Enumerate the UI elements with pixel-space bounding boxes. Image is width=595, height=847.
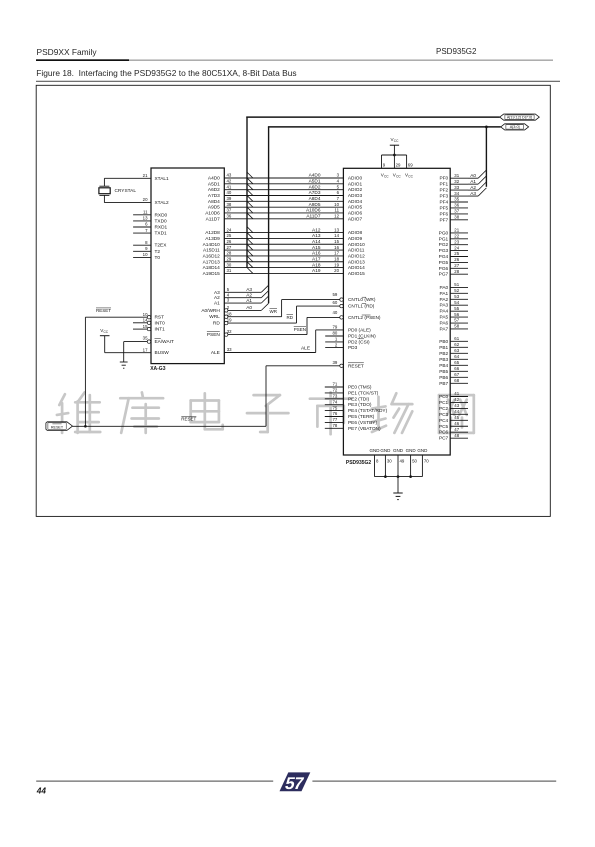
svg-text:12: 12	[334, 214, 339, 219]
svg-text:19: 19	[227, 318, 232, 323]
svg-text:15: 15	[334, 239, 339, 244]
svg-text:A6D2: A6D2	[208, 187, 220, 193]
svg-text:43: 43	[454, 403, 459, 408]
svg-text:PD3: PD3	[348, 345, 358, 351]
svg-text:ADIO13: ADIO13	[348, 259, 365, 265]
svg-text:PB4: PB4	[439, 363, 448, 369]
svg-text:PA4: PA4	[440, 309, 449, 315]
svg-text:A9D5: A9D5	[208, 205, 220, 211]
svg-text:A1: A1	[470, 179, 476, 185]
svg-text:10: 10	[334, 202, 339, 207]
svg-text:61: 61	[454, 336, 459, 341]
svg-text:38: 38	[454, 215, 459, 220]
svg-text:GND: GND	[393, 448, 404, 453]
svg-text:40: 40	[227, 190, 232, 195]
svg-text:INT0: INT0	[155, 320, 166, 326]
svg-text:PE5 (TERR): PE5 (TERR)	[348, 414, 375, 420]
svg-text:PSD9XX Family: PSD9XX Family	[37, 47, 98, 57]
svg-text:54: 54	[454, 300, 459, 305]
svg-text:T2: T2	[155, 249, 161, 255]
svg-text:33: 33	[227, 347, 232, 352]
svg-text:ALE: ALE	[301, 346, 310, 352]
svg-text:TXD1: TXD1	[155, 231, 168, 237]
svg-text:A18: A18	[312, 262, 321, 268]
svg-text:PF2: PF2	[439, 188, 448, 194]
svg-text:A11D7: A11D7	[206, 216, 221, 222]
svg-text:A8D4: A8D4	[208, 199, 220, 205]
svg-text:PC6: PC6	[439, 430, 449, 436]
svg-text:65: 65	[454, 360, 459, 365]
svg-text:PA5: PA5	[440, 315, 449, 321]
svg-text:ADIO2: ADIO2	[348, 187, 363, 193]
svg-text:17: 17	[334, 251, 339, 256]
svg-text:ADIO3: ADIO3	[348, 193, 363, 199]
svg-text:INT1: INT1	[155, 327, 166, 333]
svg-text:PC3: PC3	[439, 412, 449, 418]
svg-text:ADIO14: ADIO14	[348, 265, 365, 271]
svg-text:A19D15: A19D15	[203, 271, 221, 277]
svg-text:GND: GND	[380, 448, 391, 453]
svg-text:XA-G3: XA-G3	[150, 366, 166, 372]
svg-text:75: 75	[332, 405, 337, 410]
svg-text:ADIO11: ADIO11	[348, 248, 365, 254]
svg-text:50: 50	[412, 459, 417, 464]
svg-text:A7D3: A7D3	[208, 193, 220, 199]
svg-text:32: 32	[454, 179, 459, 184]
svg-text:72: 72	[332, 388, 337, 393]
svg-text:PC4: PC4	[439, 418, 449, 424]
svg-text:A9D5: A9D5	[309, 202, 321, 208]
svg-text:39: 39	[332, 360, 337, 365]
svg-text:78: 78	[332, 423, 337, 428]
svg-text:A15D11: A15D11	[203, 248, 220, 254]
svg-text:RST: RST	[155, 315, 165, 321]
svg-text:14: 14	[143, 318, 148, 323]
svg-text:69: 69	[408, 162, 413, 167]
svg-text:23: 23	[454, 239, 459, 244]
svg-text:PE0 (TMS): PE0 (TMS)	[348, 385, 372, 391]
svg-text:ADIO8: ADIO8	[348, 230, 363, 236]
svg-text:13: 13	[334, 227, 339, 232]
svg-text:PC0: PC0	[439, 394, 449, 400]
svg-text:EA/WAIT: EA/WAIT	[155, 339, 174, 345]
svg-text:27: 27	[454, 263, 459, 268]
svg-text:ADIO15: ADIO15	[348, 271, 365, 277]
svg-text:27: 27	[227, 245, 232, 250]
svg-text:76: 76	[332, 411, 337, 416]
svg-text:13: 13	[143, 216, 148, 221]
svg-text:PG7: PG7	[439, 272, 449, 278]
svg-text:80: 80	[332, 331, 337, 336]
svg-text:PF0: PF0	[439, 176, 448, 182]
svg-text:GND: GND	[370, 448, 381, 453]
svg-text:PE4 (TSTAT/RDY): PE4 (TSTAT/RDY)	[348, 408, 388, 414]
svg-text:PSD935G2: PSD935G2	[436, 47, 477, 56]
svg-text:ADIO4: ADIO4	[348, 199, 363, 205]
svg-text:41: 41	[227, 184, 232, 189]
svg-text:48: 48	[454, 433, 459, 438]
svg-text:79: 79	[332, 325, 337, 330]
svg-text:PA1: PA1	[440, 291, 449, 297]
svg-text:PB7: PB7	[439, 381, 448, 387]
svg-text:22: 22	[454, 234, 459, 239]
svg-text:44: 44	[36, 786, 47, 796]
svg-text:PA7: PA7	[440, 326, 449, 332]
svg-text:PF6: PF6	[439, 211, 448, 217]
svg-text:33: 33	[454, 185, 459, 190]
svg-text:A15: A15	[312, 245, 321, 251]
svg-text:15: 15	[143, 324, 148, 329]
svg-text:Figure 18. Interfacing the PS: Figure 18. Interfacing the PSD935G2 to t…	[36, 68, 296, 78]
svg-text:A3: A3	[214, 290, 220, 296]
svg-text:A12: A12	[312, 227, 321, 233]
svg-text:ADIO9: ADIO9	[348, 236, 363, 242]
svg-text:11: 11	[334, 208, 339, 213]
svg-text:10: 10	[143, 312, 148, 317]
svg-text:RXD0: RXD0	[155, 212, 168, 218]
svg-text:PA3: PA3	[440, 303, 449, 309]
svg-text:19: 19	[334, 262, 339, 267]
svg-text:21: 21	[143, 173, 148, 178]
svg-text:A0: A0	[470, 173, 476, 179]
svg-text:PB3: PB3	[439, 357, 448, 363]
svg-text:PE7 (VBATON): PE7 (VBATON)	[348, 426, 381, 432]
svg-text:32: 32	[227, 329, 232, 334]
svg-text:A13: A13	[312, 233, 321, 239]
svg-text:PF7: PF7	[439, 217, 448, 223]
svg-text:14: 14	[334, 233, 339, 238]
svg-text:PC1: PC1	[439, 400, 449, 406]
svg-text:RESET: RESET	[348, 363, 364, 369]
svg-text:26: 26	[227, 239, 232, 244]
svg-text:40: 40	[332, 310, 337, 315]
svg-text:RD: RD	[213, 321, 220, 327]
svg-text:73: 73	[332, 394, 337, 399]
svg-text:59: 59	[332, 292, 337, 297]
svg-text:PF3: PF3	[439, 194, 448, 200]
svg-text:63: 63	[454, 348, 459, 353]
svg-text:CC: CC	[408, 174, 413, 178]
svg-text:17: 17	[143, 347, 148, 352]
svg-text:CNTL2 (PSEN): CNTL2 (PSEN)	[348, 315, 381, 321]
svg-text:28: 28	[227, 251, 232, 256]
svg-text:ADIO1: ADIO1	[348, 181, 363, 187]
svg-text:RXD1: RXD1	[155, 225, 168, 231]
svg-text:49: 49	[400, 459, 405, 464]
svg-text:10: 10	[143, 252, 148, 257]
svg-text:PG2: PG2	[439, 242, 449, 248]
svg-text:PG1: PG1	[439, 236, 449, 242]
svg-text:45: 45	[454, 415, 459, 420]
svg-text:PC7: PC7	[439, 436, 449, 442]
svg-text:74: 74	[332, 399, 337, 404]
svg-text:24: 24	[227, 227, 232, 232]
svg-text:XTAL2: XTAL2	[155, 200, 170, 206]
svg-text:PG0: PG0	[439, 230, 449, 236]
svg-text:RESET: RESET	[96, 308, 111, 313]
svg-text:PE3 (TDO): PE3 (TDO)	[348, 402, 372, 408]
svg-text:67: 67	[454, 372, 459, 377]
svg-text:ADIO7: ADIO7	[348, 216, 363, 222]
svg-text:A11D7: A11D7	[306, 214, 321, 220]
svg-text:A0/WRH: A0/WRH	[201, 308, 220, 314]
svg-text:PD2 (CSI): PD2 (CSI)	[348, 339, 370, 345]
svg-text:WR: WR	[270, 309, 278, 314]
svg-text:58: 58	[454, 324, 459, 329]
svg-text:TXD0: TXD0	[155, 218, 168, 224]
svg-text:24: 24	[454, 245, 459, 250]
svg-text:25: 25	[227, 233, 232, 238]
svg-text:36: 36	[454, 203, 459, 208]
svg-text:20: 20	[334, 268, 339, 273]
svg-text:60: 60	[332, 300, 337, 305]
svg-text:PA2: PA2	[440, 297, 449, 303]
svg-text:A5D1: A5D1	[309, 179, 321, 185]
svg-text:PF5: PF5	[439, 205, 448, 211]
svg-text:46: 46	[454, 421, 459, 426]
svg-text:WRL: WRL	[209, 314, 220, 320]
svg-text:A2: A2	[214, 295, 220, 301]
svg-text:A3: A3	[246, 287, 252, 293]
svg-text:T2EX: T2EX	[155, 243, 168, 249]
svg-text:XTAL1: XTAL1	[155, 176, 170, 182]
svg-text:CC: CC	[384, 174, 389, 178]
svg-text:A7D3: A7D3	[309, 190, 321, 196]
svg-text:PD0 (ALE): PD0 (ALE)	[348, 327, 371, 333]
svg-text:18: 18	[227, 311, 232, 316]
svg-text:57: 57	[454, 318, 459, 323]
svg-text:ADIO0: ADIO0	[348, 176, 363, 182]
svg-text:PB2: PB2	[439, 351, 448, 357]
svg-text:11: 11	[143, 210, 148, 215]
svg-text:62: 62	[454, 342, 459, 347]
svg-text:A18D14: A18D14	[203, 265, 221, 271]
svg-text:GND: GND	[406, 448, 417, 453]
svg-text:CRYSTAL: CRYSTAL	[115, 188, 137, 194]
svg-text:PE2 (TDI): PE2 (TDI)	[348, 396, 370, 402]
svg-text:21: 21	[454, 228, 459, 233]
svg-text:A8D4: A8D4	[309, 196, 321, 202]
svg-text:PG6: PG6	[439, 266, 449, 272]
svg-text:41: 41	[454, 391, 459, 396]
svg-text:31: 31	[454, 173, 459, 178]
svg-text:CC: CC	[394, 139, 399, 143]
svg-text:A4D0: A4D0	[309, 173, 321, 179]
svg-text:35: 35	[454, 197, 459, 202]
svg-text:PB5: PB5	[439, 369, 448, 375]
svg-text:77: 77	[332, 417, 337, 422]
svg-text:A10D6: A10D6	[205, 210, 220, 216]
svg-text:A1: A1	[214, 301, 220, 307]
svg-text:52: 52	[454, 288, 459, 293]
svg-text:ALE: ALE	[211, 350, 220, 356]
svg-text:A13D9: A13D9	[205, 236, 220, 242]
svg-text:PA6: PA6	[440, 321, 449, 327]
svg-text:RESET: RESET	[181, 417, 196, 422]
svg-text:PA0: PA0	[440, 285, 449, 291]
svg-text:A0: A0	[246, 305, 252, 311]
svg-text:A2: A2	[470, 185, 476, 191]
svg-text:PE6 (VSTBY): PE6 (VSTBY)	[348, 420, 377, 426]
svg-text:16: 16	[334, 245, 339, 250]
svg-text:51: 51	[454, 282, 459, 287]
svg-text:42: 42	[454, 397, 459, 402]
svg-text:A[19:12] D[7:0]: A[19:12] D[7:0]	[507, 115, 532, 119]
svg-text:ADIO12: ADIO12	[348, 253, 365, 259]
svg-text:25: 25	[454, 251, 459, 256]
svg-text:CNTL1 (RD): CNTL1 (RD)	[348, 304, 375, 310]
svg-text:ADIO10: ADIO10	[348, 242, 365, 248]
svg-text:53: 53	[454, 294, 459, 299]
svg-text:38: 38	[227, 202, 232, 207]
svg-text:A14D10: A14D10	[203, 242, 221, 248]
svg-text:PC2: PC2	[439, 406, 449, 412]
svg-text:56: 56	[454, 312, 459, 317]
svg-text:GND: GND	[417, 448, 428, 453]
svg-text:A10D6: A10D6	[306, 208, 321, 214]
svg-text:PB1: PB1	[439, 345, 448, 351]
svg-text:43: 43	[227, 173, 232, 178]
svg-text:34: 34	[454, 191, 459, 196]
svg-text:A4D0: A4D0	[208, 176, 220, 182]
svg-text:35: 35	[143, 335, 148, 340]
svg-text:A3: A3	[470, 191, 476, 197]
svg-text:PSD935G2: PSD935G2	[346, 460, 372, 466]
svg-text:PB0: PB0	[439, 339, 448, 345]
svg-text:36: 36	[227, 214, 232, 219]
svg-text:18: 18	[334, 256, 339, 261]
svg-text:30: 30	[387, 459, 392, 464]
svg-text:71: 71	[332, 382, 337, 387]
svg-text:26: 26	[454, 257, 459, 262]
svg-text:A[3:0]: A[3:0]	[510, 125, 520, 129]
svg-text:PG5: PG5	[439, 260, 449, 266]
svg-text:PSEN: PSEN	[207, 332, 221, 338]
svg-text:RD: RD	[287, 315, 294, 320]
svg-text:A5D1: A5D1	[208, 181, 220, 187]
svg-text:A6D2: A6D2	[309, 184, 321, 190]
svg-text:A14: A14	[312, 239, 321, 245]
svg-text:A1: A1	[246, 298, 252, 304]
svg-text:A17D13: A17D13	[203, 259, 221, 265]
svg-text:70: 70	[424, 459, 429, 464]
svg-text:37: 37	[227, 208, 232, 213]
svg-text:A16: A16	[312, 251, 321, 257]
svg-text:47: 47	[454, 427, 459, 432]
svg-text:A16D12: A16D12	[203, 253, 221, 259]
svg-text:37: 37	[454, 209, 459, 214]
svg-text:30: 30	[227, 262, 232, 267]
svg-text:PB6: PB6	[439, 375, 448, 381]
svg-text:68: 68	[454, 378, 459, 383]
svg-text:PC5: PC5	[439, 424, 449, 430]
svg-text:A12D8: A12D8	[205, 230, 220, 236]
svg-text:CNTL0 (WR): CNTL0 (WR)	[348, 297, 376, 303]
svg-text:42: 42	[227, 179, 232, 184]
svg-text:28: 28	[454, 269, 459, 274]
svg-text:A2: A2	[246, 292, 252, 298]
svg-text:A19: A19	[312, 268, 321, 274]
svg-text:66: 66	[454, 366, 459, 371]
svg-text:20: 20	[143, 197, 148, 202]
svg-text:29: 29	[227, 256, 232, 261]
svg-text:64: 64	[454, 354, 459, 359]
svg-text:PG3: PG3	[439, 248, 449, 254]
svg-text:55: 55	[454, 306, 459, 311]
svg-text:PF1: PF1	[439, 182, 448, 188]
svg-text:PSEN: PSEN	[294, 327, 306, 332]
svg-text:A17: A17	[312, 256, 321, 262]
svg-text:29: 29	[396, 162, 401, 167]
svg-text:39: 39	[227, 196, 232, 201]
svg-text:BUSW: BUSW	[155, 350, 170, 356]
svg-text:T0: T0	[155, 255, 161, 261]
svg-text:RESET: RESET	[51, 426, 64, 430]
svg-text:44: 44	[454, 409, 459, 414]
svg-text:CC: CC	[104, 330, 109, 334]
svg-text:CC: CC	[396, 174, 401, 178]
svg-text:PE1 (TCK/ST): PE1 (TCK/ST)	[348, 390, 379, 396]
svg-text:ADIO5: ADIO5	[348, 205, 363, 211]
svg-text:31: 31	[227, 268, 232, 273]
svg-text:PG4: PG4	[439, 254, 449, 260]
svg-text:PF4: PF4	[439, 200, 448, 206]
svg-text:ADIO6: ADIO6	[348, 210, 363, 216]
